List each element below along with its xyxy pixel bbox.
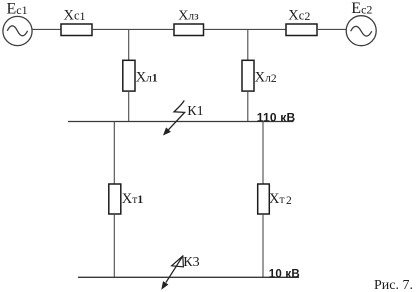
resistor Xl3 xyxy=(174,24,204,36)
svg-text:Хс1: Хс1 xyxy=(64,7,86,23)
fault K1 xyxy=(163,101,185,136)
svg-text:10 кВ: 10 кВ xyxy=(269,268,300,280)
bus 110 kV xyxy=(68,121,294,123)
resistor Xl2 xyxy=(242,60,254,91)
generator Ec1 xyxy=(3,16,32,45)
wire xyxy=(32,28,61,30)
wire xyxy=(128,91,130,121)
wire xyxy=(247,91,249,121)
svg-text:Хт1: Хт1 xyxy=(122,191,144,207)
svg-text:К3: К3 xyxy=(183,255,199,270)
wire xyxy=(262,214,264,277)
generator Ec2 xyxy=(346,16,376,46)
wire xyxy=(92,28,174,30)
bus 10 kV xyxy=(78,276,299,278)
fault K3 xyxy=(161,256,183,290)
wire xyxy=(113,122,115,185)
wire (branch to Xl2) xyxy=(247,29,249,60)
wire (branch to Xl1) xyxy=(128,29,130,60)
wire xyxy=(262,122,264,185)
svg-text:Хл1: Хл1 xyxy=(136,69,158,85)
svg-text:Ес1: Ес1 xyxy=(7,0,28,17)
wire xyxy=(204,28,287,30)
resistor Xt1 xyxy=(109,184,121,214)
svg-text:К1: К1 xyxy=(187,104,203,119)
resistor Xl1 xyxy=(123,60,135,91)
svg-text:Рис. 7.: Рис. 7. xyxy=(374,278,413,292)
resistor Xc2 xyxy=(286,24,317,36)
wire xyxy=(317,28,347,30)
svg-text:Ес2: Ес2 xyxy=(351,0,372,17)
svg-text:Хт2: Хт2 xyxy=(269,191,292,207)
svg-text:Хс2: Хс2 xyxy=(288,7,310,23)
svg-text:Хлз: Хлз xyxy=(178,9,199,24)
resistor Xt2 xyxy=(258,184,270,214)
svg-text:Хл2: Хл2 xyxy=(255,69,277,85)
resistor Xc1 xyxy=(61,24,92,36)
wire xyxy=(113,214,115,277)
